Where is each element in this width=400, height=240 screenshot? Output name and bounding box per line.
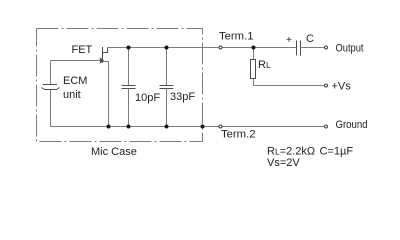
ECM capsule top plate: [43, 84, 58, 86]
svg-text:unit: unit: [63, 89, 81, 101]
junction dot FET source bottom: [107, 125, 111, 129]
resistor RL bottom lead + wire to +Vs: [254, 79, 325, 86]
capacitor 33pF top wire: [166, 48, 168, 86]
svg-text:Term.1: Term.1: [219, 31, 254, 43]
terminal circle Term.2: [219, 125, 222, 128]
transistor FET source lead: [103, 62, 109, 127]
svg-text:10pF: 10pF: [135, 92, 160, 104]
junction dot RL branch: [252, 46, 256, 50]
wire drain to Term.1 (top rail): [108, 47, 297, 49]
capacitor 10pF plates: [122, 85, 136, 87]
svg-text:ECM: ECM: [63, 75, 87, 87]
wire C to Output: [301, 47, 325, 49]
transistor FET drain lead: [103, 48, 108, 53]
ECM capsule left wire lower: [50, 90, 52, 127]
transistor FET bar: [102, 47, 104, 63]
junction dot 10pF bottom: [127, 125, 131, 129]
capacitor 33pF plates: [160, 85, 174, 87]
svg-text:33pF: 33pF: [170, 91, 195, 103]
svg-text:Ground: Ground: [336, 119, 368, 131]
capacitor 10pF top wire: [128, 48, 130, 86]
svg-text:Term.2: Term.2: [221, 129, 256, 141]
svg-text:Output: Output: [336, 43, 364, 55]
resistor RL body: [251, 60, 256, 79]
terminal circle Term.1: [219, 46, 222, 49]
transistor FET gate arrow: [100, 57, 104, 64]
junction dot case to ground: [201, 125, 205, 129]
capacitor 33pF bottom wire: [166, 89, 168, 127]
svg-text:+Vs: +Vs: [332, 81, 352, 93]
svg-text:RL=2.2kΩ: RL=2.2kΩ: [267, 146, 315, 158]
wire bottom rail (ground): [51, 126, 325, 128]
junction dot top 10pF: [127, 46, 131, 50]
junction dot 33pF bottom: [165, 125, 169, 129]
svg-text:Mic Case: Mic Case: [91, 146, 137, 158]
svg-text:RL: RL: [258, 59, 271, 71]
terminal circle Output: [325, 46, 328, 49]
ECM capsule bottom plate (curved): [42, 88, 60, 90]
svg-text:Vs=2V: Vs=2V: [267, 157, 300, 169]
svg-text:C=1µF: C=1µF: [320, 146, 354, 158]
resistor RL top lead: [253, 48, 255, 60]
capacitor C right plate: [300, 41, 302, 56]
mic case enclosure (dash-dot border): [37, 29, 203, 142]
ECM capsule left wire upper: [50, 61, 52, 86]
terminal circle +Vs: [325, 84, 328, 87]
terminal circle Ground: [325, 125, 328, 128]
svg-text:+: +: [286, 35, 292, 46]
capacitor 10pF bottom wire: [128, 89, 130, 127]
capacitor C left plate: [296, 41, 298, 56]
svg-text:C: C: [306, 33, 314, 45]
wire gate (ECM to FET gate): [51, 60, 103, 62]
junction dot top 33pF: [165, 46, 169, 50]
svg-text:FET: FET: [72, 44, 93, 56]
